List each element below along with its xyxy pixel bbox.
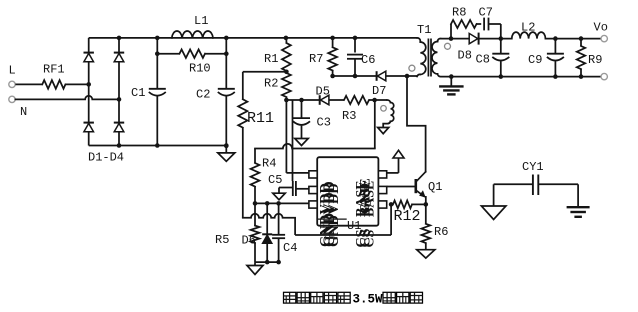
svg-text:D7: D7 (372, 84, 386, 98)
svg-text:L: L (9, 64, 16, 78)
terminal N (9, 96, 27, 119)
node emitter (424, 202, 429, 207)
terminal Vo- (601, 73, 607, 79)
svg-text:C3: C3 (317, 116, 331, 130)
svg-text:R9: R9 (588, 53, 602, 67)
resistor R7 (309, 38, 337, 76)
earth ground below T1 (439, 74, 464, 94)
capacitor C6 (347, 38, 375, 76)
IC U1 pins (309, 171, 387, 208)
svg-text:N: N (20, 105, 27, 119)
capacitor C5 (268, 173, 309, 196)
inductor L1 (172, 14, 213, 38)
diode D8 (458, 33, 479, 63)
svg-text:Q1: Q1 (428, 180, 442, 194)
svg-text:L1: L1 (194, 14, 208, 28)
bridge leg 2 wire (117, 36, 122, 148)
wire L to RF1 (15, 83, 42, 85)
svg-text:C6: C6 (361, 53, 375, 67)
svg-text:L2: L2 (521, 21, 535, 35)
group bottom wire (255, 260, 281, 265)
svg-text:U1: U1 (347, 219, 361, 233)
svg-text:R5: R5 (215, 233, 229, 247)
earth right of CY1 (567, 184, 590, 217)
terminal Vo+ (594, 21, 608, 42)
svg-text:R6: R6 (434, 225, 448, 239)
diode D6 (242, 203, 273, 262)
resistor R3 (342, 96, 369, 123)
capacitor C2 (196, 38, 235, 146)
svg-text:RF1: RF1 (43, 63, 65, 77)
svg-text:3.5W: 3.5W (353, 293, 384, 307)
capacitor C1 (131, 38, 166, 146)
resistor R11 (238, 99, 274, 127)
diode D3 (84, 123, 94, 132)
svg-text:CS: CS (363, 229, 378, 247)
IC U1 internal labels (garbled) (317, 178, 377, 247)
svg-text:C4: C4 (283, 241, 297, 255)
IC U1 body (317, 157, 378, 226)
wire D7 to drain node (386, 74, 417, 79)
resistor R5 (215, 203, 259, 262)
caption 宽电压输入3.5W原理图 (284, 292, 423, 306)
resistor R10 (155, 50, 229, 76)
svg-text:D1-D4: D1-D4 (88, 151, 124, 165)
svg-text:VDD: VDD (326, 183, 342, 214)
ground left of CY1 (481, 184, 506, 219)
resistor R2 (264, 73, 291, 100)
aux phase dot (381, 106, 387, 112)
label U1 (347, 219, 361, 233)
resistor R4 (251, 149, 260, 204)
wire RF1 to bridge (65, 82, 91, 87)
wire R3 to node (369, 98, 377, 103)
svg-text:R1: R1 (264, 52, 278, 66)
wire FB to C5 (292, 100, 294, 181)
node secondary top (449, 36, 454, 41)
svg-text:R2: R2 (264, 77, 278, 91)
node R1-R2 (243, 70, 289, 75)
svg-text:R7: R7 (309, 52, 323, 66)
svg-text:T1: T1 (417, 23, 431, 37)
diode D1 (84, 53, 94, 62)
wire VDD line (255, 100, 375, 149)
wire pin base to Q1 (387, 186, 415, 188)
svg-text:Vo: Vo (594, 21, 608, 35)
snubber bottom wire (330, 74, 376, 79)
wire D5 to R3 (329, 99, 344, 101)
inductor L2 (512, 21, 546, 39)
wire R11 to CS with hops (243, 214, 295, 235)
diode D2 (114, 53, 124, 62)
wire drain to collector (407, 76, 426, 172)
svg-text:D5: D5 (316, 85, 330, 99)
capacitor C3 (293, 100, 331, 139)
resistor R8 (451, 5, 477, 38)
label R4 (262, 157, 276, 171)
svg-text:R3: R3 (342, 109, 356, 123)
output bottom rail (451, 76, 601, 78)
ground below aux winding (378, 128, 389, 134)
CS bottom bus (295, 204, 391, 235)
transformer T1 secondary (432, 39, 451, 77)
diode D7 (372, 71, 386, 98)
capacitor C4 (272, 203, 297, 262)
svg-text:C9: C9 (528, 53, 542, 67)
bottom rail wire (89, 143, 229, 148)
node CS pin (389, 202, 394, 207)
label D1-D4 (88, 151, 124, 165)
ground below C5 wire (273, 188, 285, 200)
bridge leg 1 wire (88, 38, 90, 146)
ground below C2 (218, 144, 235, 162)
svg-text:R12: R12 (394, 208, 421, 225)
svg-text:D8: D8 (458, 49, 472, 63)
capacitor C9 (528, 39, 564, 79)
wire N with hop over bridge leg (15, 96, 121, 102)
svg-text:D6: D6 (242, 234, 256, 248)
T1 primary phase dot (409, 65, 415, 71)
wire D8 to L2 node (479, 36, 512, 41)
ground below R6 (417, 250, 435, 258)
svg-text:GND: GND (326, 215, 342, 247)
svg-text:C5: C5 (268, 173, 282, 187)
diode D5 (316, 85, 330, 105)
svg-text:R4: R4 (262, 157, 276, 171)
svg-text:C2: C2 (196, 88, 210, 102)
resistor RF1 (42, 63, 65, 89)
wire L2 to output (545, 36, 601, 41)
svg-text:CY1: CY1 (522, 160, 544, 174)
transformer T1 primary (417, 38, 426, 77)
svg-text:R8: R8 (452, 5, 466, 19)
svg-text:GND: GND (358, 183, 373, 214)
label T1 (417, 23, 431, 37)
resistor R6 (421, 204, 448, 249)
resistor R1 (264, 38, 291, 71)
capacitor C8 (476, 39, 510, 79)
diode D4 (114, 123, 124, 132)
svg-text:R11: R11 (247, 110, 274, 127)
ground below C3 (295, 139, 308, 146)
ground below R5 group (247, 262, 263, 274)
wire pin drain with up arrow (387, 150, 404, 173)
svg-text:C8: C8 (476, 53, 490, 67)
wire R11 top (242, 72, 244, 100)
resistor R12 (393, 201, 426, 226)
transformer T1 core (428, 39, 431, 77)
T1 secondary phase dot (445, 43, 451, 49)
transistor Q1 (416, 172, 443, 205)
svg-text:C1: C1 (131, 86, 145, 100)
transformer T1 aux winding (383, 100, 394, 128)
terminal L (9, 64, 16, 88)
aux winding wire (375, 99, 388, 101)
node FB wire (284, 98, 320, 103)
wire FB to pin1 (286, 100, 309, 173)
svg-text:R10: R10 (189, 62, 211, 76)
capacitor CY1 (494, 160, 578, 195)
resistor R9 (577, 39, 603, 79)
wire secondary to D8 (451, 38, 469, 40)
CS top bus (253, 201, 309, 206)
top rail wire (89, 36, 418, 41)
wire R11 bottom (242, 128, 244, 218)
capacitor C7 (477, 5, 501, 38)
svg-text:C7: C7 (479, 5, 493, 19)
